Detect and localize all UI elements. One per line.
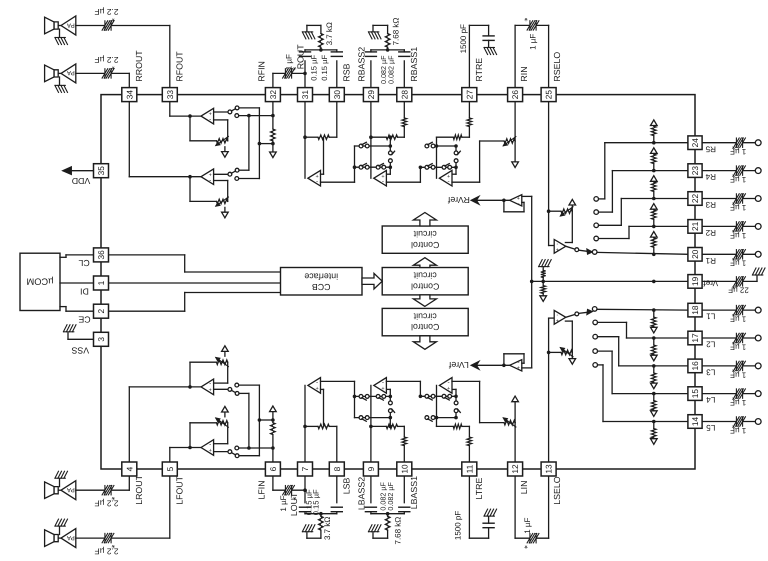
svg-text:1 µF: 1 µF — [523, 518, 532, 534]
svg-text:24: 24 — [690, 138, 700, 148]
svg-text:36: 36 — [96, 250, 106, 260]
svg-text:0.15 µF: 0.15 µF — [312, 489, 321, 515]
svg-text:22: 22 — [690, 194, 700, 204]
svg-text:LBASS2: LBASS2 — [357, 477, 367, 510]
svg-text:3.7 kΩ: 3.7 kΩ — [325, 22, 334, 45]
svg-text:RROUT: RROUT — [134, 50, 144, 82]
svg-text:*: * — [731, 420, 735, 430]
svg-text:LFOUT: LFOUT — [174, 475, 184, 504]
svg-text:20: 20 — [690, 249, 700, 259]
svg-text:-: - — [517, 201, 519, 208]
svg-text:VSS: VSS — [71, 345, 89, 355]
svg-text:1: 1 — [96, 280, 106, 285]
svg-text:*: * — [731, 253, 735, 263]
svg-text:L3: L3 — [706, 368, 716, 377]
svg-text:LSB: LSB — [341, 477, 351, 494]
svg-text:14: 14 — [690, 417, 700, 427]
svg-text:31: 31 — [300, 90, 310, 100]
svg-text:R5: R5 — [705, 144, 716, 153]
svg-text:21: 21 — [690, 221, 700, 231]
svg-text:1500 pF: 1500 pF — [459, 24, 468, 53]
svg-text:1500 pF: 1500 pF — [454, 511, 463, 540]
svg-text:-: - — [517, 359, 519, 366]
svg-text:-: - — [209, 117, 211, 124]
svg-text:5: 5 — [165, 466, 175, 471]
svg-text:23: 23 — [690, 166, 700, 176]
svg-text:ROUT: ROUT — [296, 44, 306, 70]
svg-text:VDD: VDD — [72, 176, 91, 186]
svg-text:*: * — [524, 13, 528, 23]
svg-text:LFIN: LFIN — [256, 480, 266, 499]
svg-text:-: - — [448, 179, 450, 186]
svg-text:RVref: RVref — [447, 195, 470, 205]
svg-text:32: 32 — [268, 90, 278, 100]
svg-text:Control: Control — [411, 240, 439, 250]
svg-text:Control: Control — [411, 281, 439, 291]
svg-text:L5: L5 — [706, 423, 716, 432]
svg-text:*: * — [111, 14, 115, 24]
svg-text:-: - — [209, 441, 211, 448]
svg-text:0.082 µF: 0.082 µF — [386, 481, 395, 510]
svg-text:30: 30 — [332, 90, 342, 100]
svg-text:+: + — [556, 248, 559, 254]
svg-text:0.15 µF: 0.15 µF — [320, 55, 329, 81]
svg-text:13: 13 — [544, 464, 554, 474]
svg-text:29: 29 — [366, 90, 376, 100]
svg-text:R1: R1 — [705, 256, 716, 265]
svg-text:LOUT: LOUT — [289, 492, 299, 516]
svg-text:25: 25 — [544, 90, 554, 100]
svg-text:CE: CE — [78, 315, 90, 325]
svg-text:R3: R3 — [705, 200, 716, 209]
svg-text:+: + — [447, 386, 450, 392]
svg-text:-: - — [382, 379, 384, 386]
svg-text:CCB: CCB — [312, 282, 331, 292]
svg-text:0.082 µF: 0.082 µF — [386, 55, 395, 84]
svg-text:*: * — [111, 492, 115, 502]
svg-text:-: - — [448, 379, 450, 386]
svg-text:*: * — [524, 541, 528, 551]
svg-text:Vref: Vref — [703, 278, 718, 287]
svg-text:7: 7 — [300, 466, 310, 471]
svg-text:*: * — [731, 392, 735, 402]
svg-text:+: + — [381, 386, 384, 392]
svg-text:1 µF: 1 µF — [528, 34, 537, 50]
svg-text:+: + — [517, 366, 520, 372]
svg-text:15: 15 — [690, 389, 700, 399]
svg-text:+: + — [315, 386, 318, 392]
svg-text:3.7 kΩ: 3.7 kΩ — [323, 517, 332, 540]
svg-text:-: - — [316, 179, 318, 186]
svg-text:LROUT: LROUT — [134, 474, 144, 504]
svg-text:RFOUT: RFOUT — [174, 51, 184, 82]
svg-text:27: 27 — [464, 90, 474, 100]
svg-text:*: * — [731, 169, 735, 179]
svg-text:6: 6 — [268, 466, 278, 471]
svg-text:33: 33 — [165, 90, 175, 100]
svg-text:PA: PA — [66, 69, 75, 76]
svg-text:PA: PA — [66, 534, 75, 541]
svg-text:-: - — [382, 179, 384, 186]
svg-text:17: 17 — [690, 333, 700, 343]
svg-text:9: 9 — [366, 466, 376, 471]
svg-text:7.68 kΩ: 7.68 kΩ — [392, 18, 401, 46]
svg-text:3: 3 — [96, 337, 106, 342]
svg-text:-: - — [209, 381, 211, 388]
svg-text:12: 12 — [510, 464, 520, 474]
svg-text:R2: R2 — [705, 228, 716, 237]
svg-text:RSB: RSB — [341, 63, 351, 81]
svg-text:L2: L2 — [706, 340, 716, 349]
svg-text:4: 4 — [124, 466, 134, 471]
svg-text:1 µF: 1 µF — [285, 54, 294, 70]
svg-text:*: * — [111, 62, 115, 72]
svg-text:*: * — [731, 142, 735, 152]
svg-text:-: - — [209, 177, 211, 184]
svg-text:LIN: LIN — [519, 480, 529, 494]
svg-text:LSELO: LSELO — [552, 476, 562, 505]
svg-text:PA: PA — [66, 21, 75, 28]
svg-text:L1: L1 — [706, 312, 716, 321]
svg-text:28: 28 — [399, 90, 409, 100]
svg-text:PA: PA — [66, 486, 75, 493]
svg-text:18: 18 — [690, 305, 700, 315]
svg-text:35: 35 — [96, 166, 106, 176]
svg-text:RBASS1: RBASS1 — [409, 47, 419, 82]
svg-text:RIN: RIN — [519, 66, 529, 81]
svg-text:1 µF: 1 µF — [279, 495, 288, 511]
svg-text:µCOM: µCOM — [26, 277, 53, 287]
svg-text:interface: interface — [304, 271, 338, 281]
svg-text:+: + — [209, 448, 212, 454]
svg-text:10: 10 — [399, 464, 409, 474]
svg-text:Control: Control — [411, 322, 439, 332]
svg-text:26: 26 — [510, 90, 520, 100]
svg-text:7.68 kΩ: 7.68 kΩ — [393, 517, 402, 545]
svg-text:16: 16 — [690, 361, 700, 371]
svg-text:+: + — [209, 387, 212, 393]
svg-text:*: * — [731, 197, 735, 207]
svg-text:8: 8 — [332, 466, 342, 471]
svg-text:R4: R4 — [705, 172, 716, 181]
svg-text:0.15 µF: 0.15 µF — [309, 55, 318, 81]
svg-text:+: + — [556, 319, 559, 325]
svg-text:*: * — [731, 365, 735, 375]
svg-text:RSELO: RSELO — [552, 52, 562, 82]
svg-text:LVref: LVref — [448, 360, 469, 370]
svg-text:*: * — [731, 309, 735, 319]
svg-text:-: - — [316, 379, 318, 386]
svg-text:LBASS1: LBASS1 — [409, 476, 419, 509]
svg-text:LTRE: LTRE — [474, 478, 484, 500]
svg-text:DI: DI — [80, 286, 89, 296]
svg-text:*: * — [111, 540, 115, 550]
svg-text:*: * — [731, 337, 735, 347]
svg-text:circuit: circuit — [413, 271, 437, 281]
svg-text:2: 2 — [96, 309, 106, 314]
svg-text:L4: L4 — [706, 395, 716, 404]
svg-text:circuit: circuit — [413, 229, 437, 239]
svg-text:22 µF: 22 µF — [728, 286, 749, 295]
svg-text:11: 11 — [464, 464, 474, 473]
svg-text:RFIN: RFIN — [256, 61, 266, 82]
svg-text:RTRE: RTRE — [474, 58, 484, 82]
svg-text:circuit: circuit — [413, 312, 437, 322]
svg-text:CL: CL — [78, 258, 89, 268]
svg-text:*: * — [731, 225, 735, 235]
svg-text:RBASS2: RBASS2 — [357, 47, 367, 82]
svg-text:34: 34 — [124, 90, 134, 100]
svg-text:19: 19 — [690, 276, 700, 286]
svg-text:*: * — [731, 281, 735, 291]
